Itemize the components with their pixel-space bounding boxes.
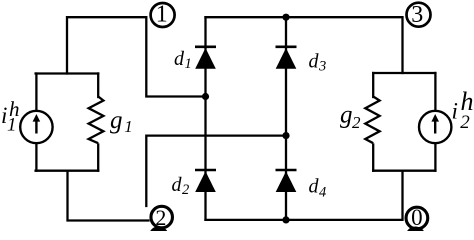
wire: right combo top bar: [373, 72, 435, 74]
wire: bridge bottom rail to node 0 corner and up: [206, 171, 403, 220]
svg-text:1: 1: [156, 2, 168, 28]
stray mark below node 2 (clipped at bottom edge): [149, 226, 169, 240]
label i2^h: [452, 87, 474, 133]
node 0 circle: [406, 205, 428, 230]
svg-text:i: i: [452, 98, 458, 123]
node 1 circle: [151, 2, 175, 28]
diode d1: [195, 47, 216, 69]
svg-text:2: 2: [155, 205, 166, 230]
svg-text:4: 4: [319, 185, 326, 201]
junction: right column on bottom rail: [282, 216, 289, 223]
svg-text:3: 3: [411, 2, 423, 28]
svg-text:1: 1: [124, 117, 133, 136]
diode d3: [276, 47, 297, 69]
svg-text:3: 3: [318, 59, 326, 75]
svg-text:g: g: [340, 101, 353, 128]
svg-text:d: d: [309, 51, 320, 73]
diode d4: [276, 170, 297, 192]
svg-text:d: d: [172, 174, 183, 196]
junction: node 2 to right column: [282, 132, 289, 139]
svg-text:d: d: [309, 176, 320, 198]
wire: node 1 net (riser, top run, drop, stub to bridge): [67, 17, 206, 96]
wire: g2 top lead: [372, 73, 374, 97]
wire: i2 top lead: [434, 73, 436, 111]
wire: g2 bottom lead: [372, 145, 374, 171]
svg-text:2: 2: [460, 112, 470, 133]
wire: g1 top lead: [97, 74, 99, 98]
svg-text:1: 1: [185, 56, 192, 72]
current source i2: [419, 111, 451, 143]
resistor g2 zigzag: [365, 97, 379, 144]
current source i1: [20, 111, 52, 143]
stray mark below node 0 (clipped at bottom edge): [406, 227, 426, 240]
diode d2: [195, 170, 216, 192]
wire: i1 top lead: [35, 74, 37, 111]
label d3: [309, 51, 327, 75]
junction: node 1 to left column: [202, 93, 209, 100]
resistor g1 zigzag: [89, 97, 104, 144]
wire: left combo bottom bar: [36, 170, 99, 172]
svg-text:1: 1: [7, 115, 17, 136]
label d4: [309, 176, 327, 201]
svg-text:0: 0: [411, 205, 423, 230]
svg-text:g: g: [110, 107, 123, 134]
wire: node 2 net (vertical from circle 2 up, run to right column): [146, 136, 286, 206]
wire: bridge left column: [204, 17, 206, 220]
label i1^h: [1, 97, 20, 136]
label d2: [172, 174, 190, 198]
label g1: [110, 107, 133, 136]
node 3 circle: [407, 2, 431, 28]
wire: right combo bottom bar: [373, 170, 435, 172]
wire: bottom left run from combo to circle 2: [68, 171, 149, 221]
wire: i2 bottom lead: [434, 144, 436, 171]
wire: i1 bottom lead: [35, 144, 37, 171]
wire: bridge top rail to node 3 corner and riser down: [206, 17, 403, 73]
node 2 circle: [151, 205, 173, 230]
svg-text:d: d: [174, 48, 185, 70]
svg-text:2: 2: [352, 113, 361, 132]
label d1: [174, 48, 192, 72]
wire: g1 bottom lead: [97, 145, 99, 171]
junction: right column on top rail: [282, 14, 289, 21]
label g2: [340, 101, 361, 132]
wire: bridge right column: [285, 17, 287, 220]
wire: left combo top bar: [36, 72, 99, 74]
svg-text:2: 2: [182, 182, 189, 198]
